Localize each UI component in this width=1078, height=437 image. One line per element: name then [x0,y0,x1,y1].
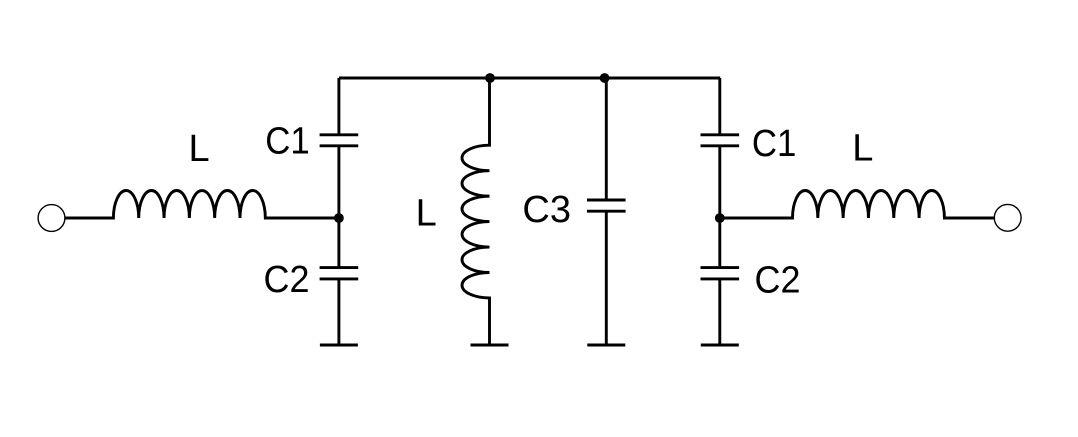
svg-text:C2: C2 [755,259,801,301]
svg-text:C1: C1 [265,121,310,163]
svg-text:L: L [852,128,873,170]
svg-text:C2: C2 [264,259,310,301]
svg-text:C3: C3 [522,189,571,231]
svg-text:L: L [416,192,437,234]
svg-text:L: L [189,128,210,170]
svg-text:C1: C1 [752,123,797,165]
